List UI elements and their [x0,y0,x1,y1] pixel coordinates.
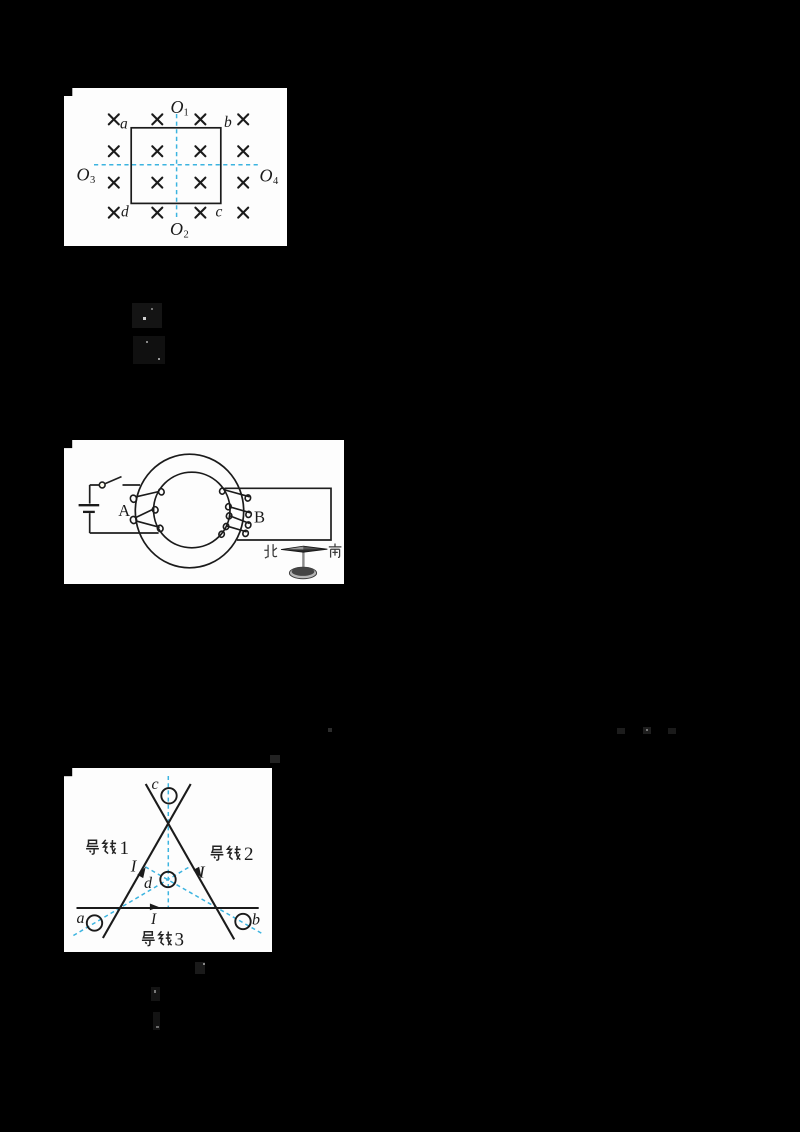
coil A [129,488,165,532]
svg-text:3: 3 [175,930,185,951]
svg-text:1: 1 [184,108,189,119]
svg-text:4: 4 [273,176,279,187]
iron core torus [135,454,243,568]
dashed line c axis [167,776,169,908]
faint text remnant 2 [133,336,165,364]
dashed axis O3-O4 [94,164,261,166]
compass base [289,567,316,578]
svg-text:1: 1 [120,838,130,859]
label a [77,910,85,927]
wire battery top [90,485,100,504]
svg-text:O: O [171,97,184,117]
label A [118,501,130,520]
label b [252,912,260,929]
corner notch [64,88,72,96]
node O3 [77,165,96,187]
label B [254,508,265,527]
dashed axis O1-O2 [176,114,178,220]
svg-text:2: 2 [184,230,189,241]
figure panel 2: toroid transformer with compass [64,440,344,584]
svg-text:O: O [77,165,90,185]
svg-text:d: d [144,875,153,892]
dashed line b-d [144,866,262,933]
compass pivot [302,550,304,571]
current arrow on wire 3 [150,904,159,911]
figure panel 3: three crossing wires [64,768,272,952]
label I on wire 2 [198,862,206,881]
dashed line a-d [73,867,189,936]
faint text remnant 3 [328,728,332,732]
label d [144,875,153,892]
node d [121,204,129,221]
svg-text:A: A [118,501,130,520]
svg-text:O: O [170,219,183,239]
current arrow on wire 1 [137,867,145,878]
faint text remnant 4 [617,728,625,734]
wire 1 [103,784,191,938]
wire 3 [77,907,259,909]
svg-text:b: b [252,912,260,929]
figure panel 1: field region with x marks [64,88,287,246]
wire secondary loop [225,488,331,540]
node b circle [235,914,250,929]
compass needle [281,546,327,552]
svg-text:I: I [198,862,206,881]
node a [120,116,128,133]
label I on wire 3 [150,911,157,928]
label c [152,776,159,793]
node b [224,114,232,131]
wire battery bottom [90,513,159,533]
node c circle [161,788,176,803]
svg-text:2: 2 [244,844,254,865]
switch S [99,477,121,488]
label daoxian1 [86,840,116,854]
corner notch [64,768,72,776]
faint text remnant 7 [151,987,160,1001]
node a circle [87,915,102,930]
label daoxian3 [142,931,172,945]
label north (bei) [264,544,277,558]
node O2 [170,219,189,241]
svg-text:O: O [260,166,273,186]
label I on wire 1 [130,857,138,876]
svg-text:d: d [121,204,129,221]
node O1 [171,97,189,119]
faint text remnant 6 [195,962,205,974]
faint text remnant 5 [270,755,280,763]
svg-text:I: I [150,911,157,928]
current arrow on wire 2 [193,867,201,878]
field cross marks (4x4 grid) [109,114,248,217]
svg-text:a: a [77,910,85,927]
wire switch to coil A [123,484,141,486]
node d circle [160,872,175,887]
label south (nan) [329,544,342,558]
svg-text:B: B [254,508,265,527]
faint text remnant 1 [132,303,162,328]
wire 2 [146,784,235,939]
node c [216,204,223,221]
coil B [218,487,252,538]
svg-text:3: 3 [90,175,95,186]
svg-text:I: I [130,857,138,876]
node O4 [260,166,280,188]
svg-text:c: c [152,776,159,793]
battery [79,505,100,512]
corner notch [64,440,72,448]
label daoxian2 [211,846,241,860]
svg-text:a: a [120,116,128,133]
svg-text:c: c [216,204,223,221]
svg-text:b: b [224,114,232,131]
square loop abcd [131,128,221,204]
